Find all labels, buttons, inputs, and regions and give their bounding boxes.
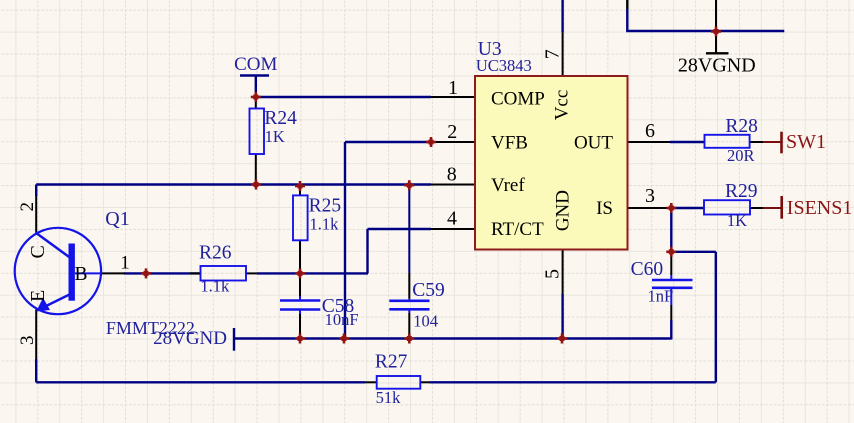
svg-text:ISENS1: ISENS1	[787, 197, 853, 219]
svg-text:1.1k: 1.1k	[200, 276, 230, 295]
svg-text:1.1k: 1.1k	[310, 215, 340, 234]
svg-text:Vcc: Vcc	[552, 90, 573, 121]
svg-text:E: E	[27, 290, 49, 302]
svg-text:SW1: SW1	[786, 131, 826, 153]
svg-text:10nF: 10nF	[325, 310, 359, 329]
svg-text:6: 6	[645, 120, 655, 142]
svg-text:R27: R27	[375, 352, 408, 373]
svg-text:B: B	[75, 264, 88, 285]
svg-text:C59: C59	[412, 280, 445, 301]
svg-text:Vref: Vref	[491, 175, 525, 196]
svg-text:VFB: VFB	[491, 133, 528, 154]
svg-text:R29: R29	[725, 181, 758, 202]
svg-text:1nF: 1nF	[648, 286, 674, 305]
svg-text:R28: R28	[725, 116, 758, 137]
svg-text:GND: GND	[553, 190, 574, 231]
svg-text:1: 1	[448, 77, 458, 99]
svg-text:2: 2	[447, 121, 457, 143]
svg-text:C60: C60	[631, 259, 664, 280]
svg-text:COMP: COMP	[491, 88, 545, 109]
svg-text:28VGND: 28VGND	[678, 55, 756, 77]
svg-text:OUT: OUT	[574, 133, 613, 154]
svg-text:51k: 51k	[376, 388, 402, 407]
svg-text:7: 7	[542, 49, 564, 59]
svg-text:COM: COM	[234, 54, 277, 75]
svg-text:R25: R25	[309, 196, 342, 217]
svg-text:Q1: Q1	[105, 208, 129, 230]
svg-text:IS: IS	[596, 198, 613, 219]
svg-text:3: 3	[17, 336, 38, 346]
svg-text:RT/CT: RT/CT	[491, 219, 544, 240]
svg-text:3: 3	[645, 185, 655, 207]
svg-text:5: 5	[542, 269, 564, 279]
svg-text:R26: R26	[199, 242, 232, 263]
svg-text:1K: 1K	[727, 211, 747, 230]
svg-text:1K: 1K	[265, 127, 285, 146]
svg-text:104: 104	[413, 311, 438, 330]
svg-text:FMMT2222: FMMT2222	[106, 318, 195, 338]
svg-text:8: 8	[447, 163, 457, 185]
svg-text:20R: 20R	[727, 146, 755, 165]
svg-text:UC3843: UC3843	[476, 56, 532, 75]
svg-text:2: 2	[17, 202, 38, 212]
svg-text:1: 1	[120, 253, 130, 274]
svg-text:4: 4	[447, 208, 457, 230]
svg-text:C: C	[27, 245, 49, 258]
